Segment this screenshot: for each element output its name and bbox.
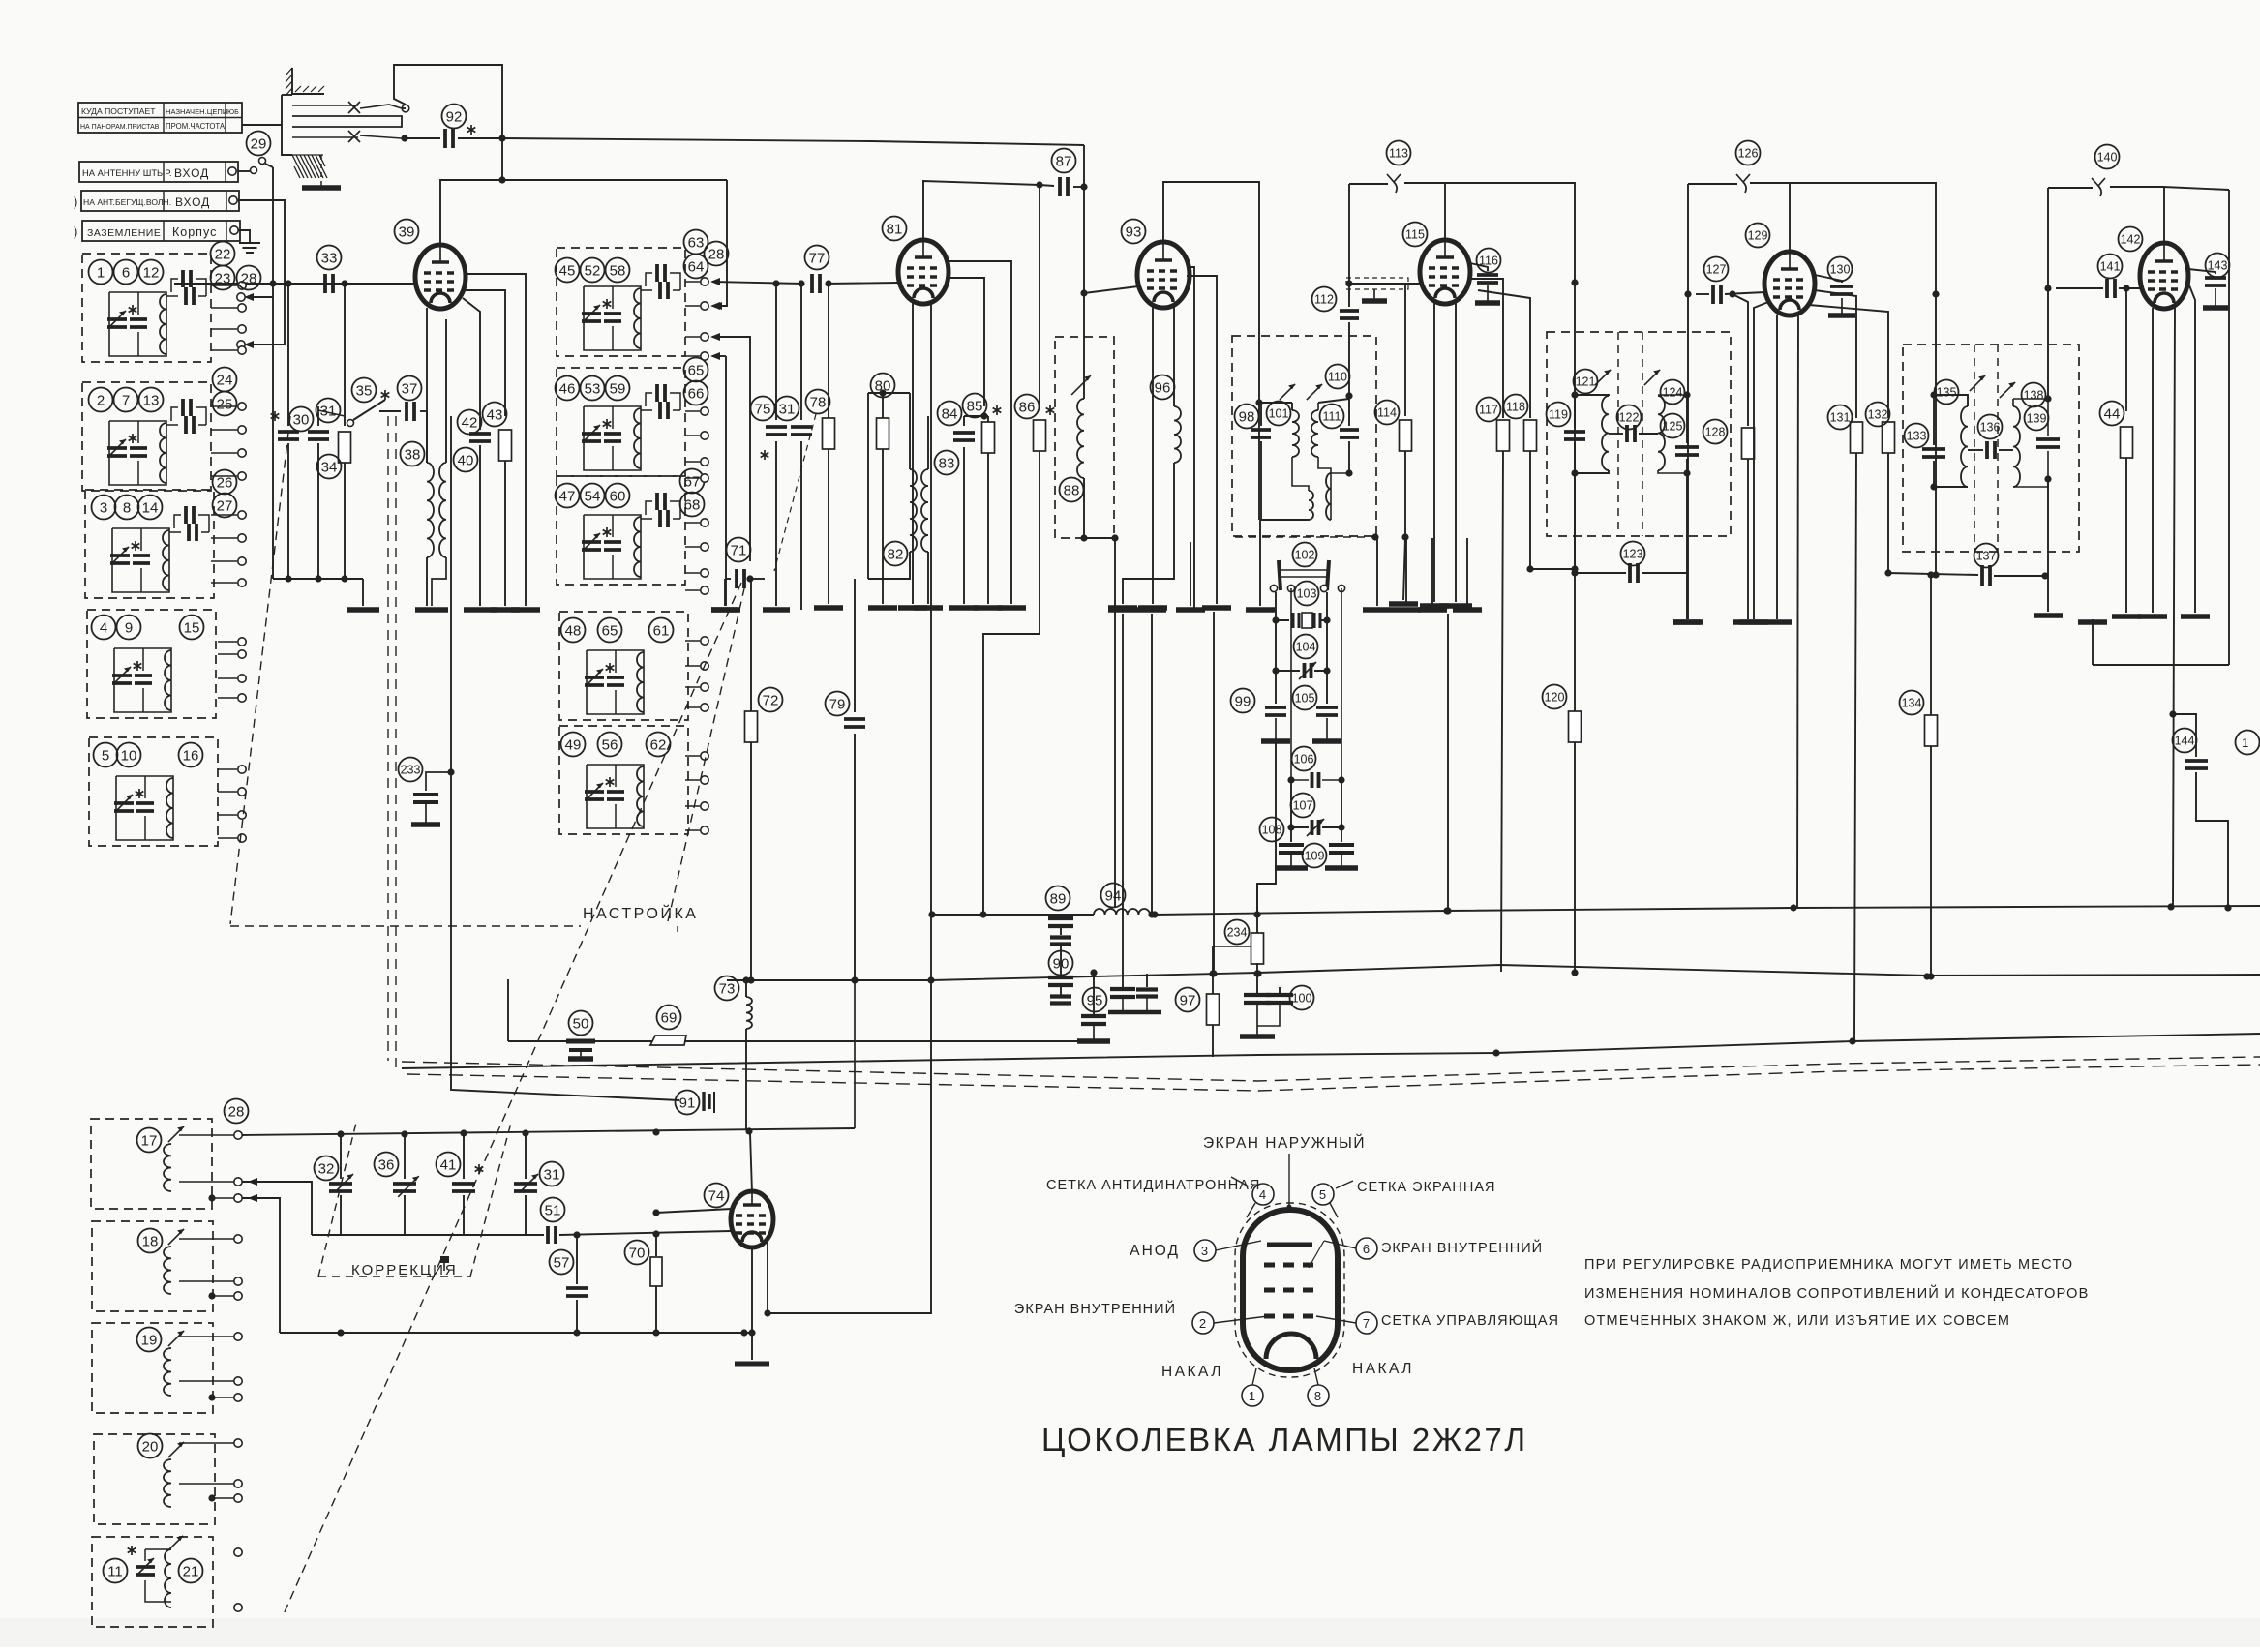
capacitor 90 (1048, 945, 1073, 1004)
svg-text:): ) (74, 225, 78, 239)
svg-text:56: 56 (602, 736, 618, 753)
circle ref 131 (1828, 405, 1853, 430)
circle ref 23 (211, 266, 235, 290)
svg-text:113: 113 (1389, 147, 1408, 161)
circle ref 95 (1083, 988, 1107, 1012)
svg-text:144: 144 (2175, 735, 2195, 748)
svg-text:84: 84 (942, 405, 958, 422)
arrows into IF box 45 (710, 278, 720, 360)
circle ref 50 (569, 1011, 593, 1036)
circle ref 114 (1375, 401, 1400, 425)
wire tube39 cathode down (426, 308, 428, 463)
capacitor 130 feedthrough (1815, 275, 1855, 315)
circle ref 34 (317, 455, 342, 479)
circle ref 127 (1704, 257, 1729, 282)
svg-text:10: 10 (121, 747, 137, 764)
svg-text:2: 2 (97, 392, 105, 408)
circle ref 35 (352, 378, 377, 403)
circle ref 19 (137, 1328, 162, 1352)
input coil box 1-6-12 (82, 254, 211, 362)
svg-text:АНОД: АНОД (1130, 1243, 1180, 1259)
circle ref 118 (1504, 395, 1528, 419)
pin circle 5 (1312, 1181, 1353, 1217)
circle ref 103 (1295, 582, 1319, 606)
circle ref 38 (401, 442, 425, 466)
svg-text:70: 70 (629, 1245, 646, 1261)
resistor 78 (814, 284, 843, 608)
circle ref 28c (225, 1099, 249, 1124)
svg-text:43: 43 (487, 406, 503, 423)
svg-text:100: 100 (1292, 992, 1312, 1006)
svg-text:): ) (74, 195, 78, 209)
circle ref 73 (715, 976, 739, 1001)
circle ref 102 (1293, 543, 1317, 567)
svg-text:82: 82 (888, 546, 904, 562)
коррекция label and symbol (351, 1256, 458, 1278)
svg-text:51: 51 (545, 1202, 561, 1218)
circle ref 79 (826, 692, 850, 716)
resistor 128 drop (1733, 294, 1763, 622)
svg-text:44: 44 (2104, 405, 2121, 422)
circle ref 31b (775, 397, 799, 421)
svg-text:74: 74 (708, 1187, 725, 1204)
circle ref 90 (1049, 951, 1073, 976)
svg-text:98: 98 (1239, 408, 1255, 425)
wire x=2116 grid rail down (2034, 188, 2063, 616)
circle ref 117 (1477, 398, 1501, 422)
circle ref 109 (1303, 844, 1327, 868)
circle ref 25 (213, 392, 237, 416)
svg-text:31: 31 (544, 1166, 560, 1183)
bottom bus y=1377 (280, 1329, 749, 1336)
circle ref 21 (179, 1559, 203, 1583)
terminal row: заземление корпус (74, 221, 240, 241)
resistor 86 (983, 405, 1054, 915)
circle ref 92 (442, 105, 467, 129)
wire IF terminal column verticals (712, 337, 750, 561)
circle ref 124 (1661, 380, 1685, 405)
capacitor left of 97 (1108, 974, 1161, 1012)
transformer secondary coil (1307, 384, 1331, 520)
dashed linkage lines (230, 416, 745, 1614)
pin circle 7 (1316, 1312, 1559, 1334)
circle ref 144 (2173, 729, 2197, 753)
svg-text:45: 45 (559, 262, 576, 279)
switch 29 contacts (238, 158, 273, 174)
circle ref 135 (1935, 380, 1959, 405)
svg-text:19: 19 (141, 1332, 158, 1348)
svg-text:38: 38 (405, 446, 421, 463)
capacitors 108/109 to ground (1275, 827, 1358, 868)
circle ref 31c (540, 1162, 564, 1186)
variable capacitor 107 (1287, 780, 1344, 836)
capacitor 141 (2056, 279, 2140, 298)
terminals of IF boxes (685, 278, 708, 834)
capacitor 122 (1609, 425, 1658, 442)
osc coil box 20 (94, 1434, 215, 1524)
circle ref 26 (213, 470, 237, 495)
circle ref 43 (483, 403, 507, 427)
circle ref 4 (92, 616, 116, 640)
svg-text:37: 37 (402, 380, 418, 397)
tube 115 plate loop (1443, 183, 1579, 569)
svg-text:ИЗМЕНЕНИЯ НОМИНАЛОВ СОПРОТИВЛЕ: ИЗМЕНЕНИЯ НОМИНАЛОВ СОПРОТИВЛЕНИЙ И КОНД… (1584, 1284, 2090, 1302)
capacitor 143 feedthrough (2188, 269, 2228, 308)
osc box 11-21 (92, 1537, 213, 1627)
tube 39 plate lead to HT rail (440, 180, 727, 245)
IF coil box 46-53-59 (557, 368, 685, 476)
junction of 92-loop on plate rail (498, 138, 505, 184)
capacitor 136 (1968, 441, 2013, 459)
circle ref 143 (2206, 254, 2230, 278)
capacitor 144 loop (2169, 710, 2231, 911)
capacitor 57 (566, 1235, 588, 1337)
tube 81 screen/pin wires down (947, 261, 1026, 608)
circle ref 49 (561, 733, 586, 757)
capacitor 30 (271, 411, 299, 579)
circle ref 89 (1046, 886, 1070, 911)
fuse box 69 (650, 1036, 686, 1045)
svg-text:111: 111 (1322, 410, 1341, 424)
IF coil box 45-52-58 (557, 248, 685, 356)
grid bus into tube 39 (174, 280, 415, 286)
circle ref 10 (117, 743, 141, 767)
svg-text:104: 104 (1296, 641, 1316, 654)
band wires to input coil boxes (237, 254, 285, 348)
svg-text:25: 25 (217, 396, 233, 412)
circle ref 81 (883, 217, 907, 241)
resistor 34 (339, 284, 351, 579)
terminal row: на антенну штыр. вход (79, 162, 238, 182)
svg-text:62: 62 (650, 736, 667, 753)
svg-text:141: 141 (2100, 260, 2121, 274)
svg-text:126: 126 (1738, 147, 1759, 161)
svg-text:ПРИ РЕГУЛИРОВКЕ РАДИОПРИЕМНИКА: ПРИ РЕГУЛИРОВКЕ РАДИОПРИЕМНИКА МОГУТ ИМЕ… (1584, 1257, 2073, 1273)
svg-text:ВХОД: ВХОД (174, 166, 209, 180)
capacitor 98 (1251, 403, 1271, 520)
svg-text:78: 78 (810, 394, 827, 410)
bus C (chassis line) (402, 1034, 2260, 1068)
svg-text:57: 57 (554, 1254, 570, 1271)
circle ref 97 (1176, 988, 1200, 1012)
svg-text:НАКАЛ: НАКАЛ (1161, 1364, 1223, 1380)
circle ref 116 (1477, 249, 1501, 273)
circle ref 15 (180, 616, 204, 640)
svg-text:91: 91 (679, 1095, 696, 1111)
coil 124 (1644, 370, 1691, 477)
tube socket body 2Ж27Л (1235, 1203, 1344, 1377)
svg-text:34: 34 (321, 459, 338, 475)
capacitor 123 (1575, 473, 1701, 622)
tube 142 plate loop (2163, 187, 2229, 665)
wire 71-75 ground rail (711, 579, 790, 610)
svg-text:139: 139 (2027, 412, 2047, 426)
circle ref 120 (1543, 685, 1567, 709)
capacitor 41 (452, 1133, 483, 1235)
circle ref 52 (581, 258, 605, 283)
circle ref 125 (1661, 414, 1685, 438)
circle ref 27 (213, 494, 237, 518)
transformer primary coil (1280, 384, 1313, 520)
capacitor 116 feedthrough (1470, 263, 1500, 303)
svg-text:96: 96 (1155, 379, 1171, 396)
svg-text:64: 64 (688, 258, 705, 275)
svg-text:НА АНТЕННУ ШТЫР.: НА АНТЕННУ ШТЫР. (82, 167, 171, 178)
bottom wire of 142 stage (2078, 619, 2229, 665)
circle ref 42 (458, 410, 482, 435)
svg-text:79: 79 (829, 696, 846, 712)
tube 93 (IF amplifier) (1137, 242, 1190, 308)
circle ref 22 (211, 242, 235, 266)
circle ref 68 (680, 493, 705, 517)
svg-text:85: 85 (967, 398, 983, 414)
wire tube 39 aux right down (466, 274, 540, 610)
svg-text:3: 3 (100, 499, 107, 516)
svg-text:СЕТКА АНТИДИНАТРОННАЯ: СЕТКА АНТИДИНАТРОННАЯ (1046, 1178, 1260, 1193)
svg-text:13: 13 (143, 392, 160, 408)
circle ref 113 (1387, 141, 1411, 165)
wire secondary top to grid rail x=1394 (1318, 392, 1353, 403)
svg-text:73: 73 (719, 980, 736, 997)
capacitor 77 (812, 274, 898, 293)
circle ref 99 (1231, 689, 1255, 713)
circle ref 58 (606, 258, 630, 283)
svg-text:58: 58 (610, 262, 626, 279)
svg-text:11: 11 (107, 1563, 123, 1579)
circle ref 88 (1060, 478, 1084, 502)
resistor 120 (1569, 569, 1582, 973)
variable capacitor 104 (1272, 620, 1330, 679)
resistor 44 drop (2112, 288, 2141, 616)
labels накал (1161, 1361, 1414, 1380)
svg-text:77: 77 (809, 250, 826, 266)
svg-text:24: 24 (217, 372, 233, 388)
HT rail drop to IF box 45 (712, 180, 727, 310)
circle ref 14 (138, 496, 163, 520)
svg-text:114: 114 (1377, 406, 1397, 420)
svg-text:42: 42 (462, 414, 478, 431)
wire 233 from x=466 (426, 768, 455, 791)
circle ref 33 (317, 246, 342, 270)
svg-text:9: 9 (125, 619, 133, 636)
svg-text:124: 124 (1663, 386, 1683, 400)
wire drop x=329 (317, 406, 319, 426)
dashed box IF filter 133-139 (1903, 345, 2079, 552)
wire terminal3 to bottom bus (242, 1178, 280, 1333)
circle ref 64 (684, 255, 708, 279)
circle ref 20 (138, 1434, 163, 1458)
svg-text:50: 50 (573, 1015, 589, 1032)
tube 74 right loop (764, 980, 931, 1317)
shield dashed pair (402, 1057, 2260, 1091)
tube 74 (oscillator) (731, 1191, 773, 1247)
svg-text:119: 119 (1549, 408, 1568, 422)
svg-text:92: 92 (446, 108, 463, 125)
tube 93 bottom pins (1138, 307, 1174, 608)
circle ref 119 (1547, 403, 1571, 427)
wire tube39 screen down (463, 298, 480, 430)
capacitor 37 (379, 402, 427, 421)
coil 138 and capacitor 139 (2000, 382, 2060, 487)
capacitor 95 (1077, 969, 1110, 1041)
circle ref 5 (94, 743, 118, 767)
svg-text:3: 3 (1201, 1244, 1209, 1258)
svg-text:121: 121 (1576, 375, 1596, 389)
capacitor 91 to ground (679, 1092, 714, 1113)
bottom bus of input filters (273, 575, 379, 610)
grid wire to tube 115 (1349, 283, 1420, 285)
circle ref 128 (1703, 420, 1728, 444)
pin circle 3 anode (1130, 1240, 1261, 1261)
svg-text:108: 108 (1262, 824, 1282, 837)
svg-text:40: 40 (458, 452, 474, 468)
svg-text:143: 143 (2208, 259, 2228, 273)
svg-text:68: 68 (684, 496, 701, 513)
svg-text:88: 88 (1064, 482, 1080, 498)
feedthrough capacitor 50 (566, 1041, 595, 1059)
capacitor 133 (1922, 391, 1945, 490)
circle ref 74 (705, 1184, 729, 1208)
circle ref 94 (1101, 884, 1126, 908)
svg-text:123: 123 (1623, 548, 1643, 561)
circle ref 121 (1574, 370, 1598, 394)
capacitor 112 chain x=1394 (1340, 184, 1359, 396)
circle ref 16 (179, 743, 203, 767)
circle ref 61 (649, 618, 674, 643)
circle ref 36 (375, 1153, 399, 1177)
svg-text:99: 99 (1235, 693, 1251, 709)
pin circle 6 (1309, 1238, 1543, 1268)
svg-text:7: 7 (1363, 1316, 1371, 1331)
pointer dash 78 (774, 414, 816, 571)
circle ref 82 (884, 542, 908, 566)
coil 88 variable (1071, 375, 1119, 915)
circle ref 2 (89, 388, 113, 412)
svg-text:28: 28 (228, 1103, 245, 1120)
circle ref 3 (92, 496, 116, 520)
circle ref 84 (938, 402, 962, 426)
svg-text:28: 28 (708, 246, 725, 262)
osc coil box 17 (91, 1119, 212, 1209)
tube 39 (pentode) (415, 245, 466, 309)
circle ref 130 (1828, 257, 1853, 282)
bottom rail of transformer (1259, 473, 1349, 520)
svg-text:59: 59 (610, 380, 626, 397)
wire x=1120 from top bus down to coil 88 (1080, 145, 1087, 375)
svg-text:109: 109 (1305, 850, 1325, 863)
tube 129 bottom pins (1739, 302, 1798, 908)
coil 94 on bus A (1094, 908, 1150, 916)
wire from вход2 terminal down (237, 200, 285, 254)
tube 142 bottom pins (2138, 285, 2210, 908)
coil 40 (439, 463, 446, 557)
svg-text:129: 129 (1748, 229, 1768, 243)
svg-text:ЭКРАН НАРУЖНЫЙ: ЭКРАН НАРУЖНЫЙ (1203, 1134, 1366, 1152)
dashed box IF transformer 98-111 (1232, 336, 1376, 536)
svg-text:32: 32 (318, 1160, 335, 1177)
circle ref 122 (1617, 405, 1642, 430)
capacitor 84 (949, 412, 988, 608)
svg-text:54: 54 (585, 488, 601, 504)
circle ref 101 (1267, 402, 1291, 426)
dashed bottom of box 98 and crystal rail (1235, 533, 1379, 540)
resistor 114 (1389, 284, 1418, 604)
pin circle 1 (1242, 1368, 1263, 1406)
coil 96 (1108, 406, 1181, 608)
circle ref 29 (247, 132, 271, 156)
osc coil box 18 (92, 1221, 213, 1311)
circle ref 54 (581, 484, 605, 508)
svg-text:16: 16 (183, 747, 199, 764)
svg-text:ЭКРАН ВНУТРЕННИЙ: ЭКРАН ВНУТРЕННИЙ (1014, 1300, 1176, 1317)
resistor 134 (1925, 575, 1938, 980)
wire x=282 lower segment (272, 284, 274, 579)
tube 142 (output IF) (2140, 243, 2188, 309)
circle ref 138 (2022, 383, 2046, 407)
circle ref 129 (1746, 224, 1770, 248)
resistor 97 (1207, 946, 1251, 1057)
circle ref 30 (289, 407, 314, 432)
svg-text:6: 6 (1363, 1242, 1371, 1256)
svg-text:1: 1 (97, 264, 105, 281)
input coil box 2-7-13 (82, 382, 211, 491)
svg-text:103: 103 (1297, 587, 1317, 601)
circle ref right edge partial (2236, 731, 2260, 755)
svg-text:134: 134 (1902, 697, 1922, 710)
IF coil box 49-56-62 (559, 726, 688, 834)
svg-text:8: 8 (123, 499, 131, 516)
svg-text:23: 23 (215, 270, 231, 286)
circle ref 115 (1403, 223, 1428, 247)
circle ref 107 (1291, 794, 1315, 818)
ground bars row y=630 (1108, 607, 1482, 613)
capacitor 79 (844, 579, 865, 980)
svg-text:122: 122 (1619, 411, 1640, 425)
capacitor 137 on wire (1888, 479, 2049, 586)
circle ref 44 (2100, 402, 2124, 426)
tube 115 (IF amplifier) (1420, 240, 1470, 304)
svg-text:ОТМЕЧЕННЫХ ЗНАКОМ Ж, ИЛИ ИЗЪЯТ: ОТМЕЧЕННЫХ ЗНАКОМ Ж, ИЛИ ИЗЪЯТИЕ ИХ СОВС… (1584, 1313, 2010, 1329)
dashed box IF filter 119-125 (1547, 332, 1731, 536)
vertical stubs to ground row (1260, 520, 1467, 606)
svg-text:234: 234 (1227, 926, 1248, 940)
circle ref 9 (117, 616, 141, 640)
wire x=466 lower and line to 91 (451, 416, 679, 1100)
circle ref 17 (137, 1128, 162, 1153)
circle ref 6 (114, 260, 138, 285)
resistor 85 (974, 405, 1003, 608)
terminals of osc boxes (234, 1131, 242, 1611)
coil 121 (1575, 370, 1611, 473)
dashed box around coil 88 (1055, 337, 1114, 538)
tube 93 plate loop (1163, 182, 1263, 520)
capacitor 33 (325, 274, 333, 293)
capacitors 99/105 pair (1261, 671, 1341, 741)
circle ref 59 (606, 376, 630, 401)
capacitor 89 (1048, 915, 1073, 945)
circle ref 234 (1225, 920, 1250, 945)
scan shading bottom (0, 1618, 2260, 1647)
circle ref 57 (550, 1250, 574, 1275)
circle ref 51 (541, 1198, 565, 1222)
shielded grid lead dashed box of tube 115 (1346, 278, 1408, 301)
svg-text:65: 65 (602, 622, 618, 639)
dashed partition in box 119-125 (1617, 332, 1619, 536)
circle ref 78 (806, 390, 830, 414)
svg-text:49: 49 (565, 736, 582, 753)
circle ref 40 (454, 448, 478, 472)
capacitor 233 (411, 416, 448, 825)
